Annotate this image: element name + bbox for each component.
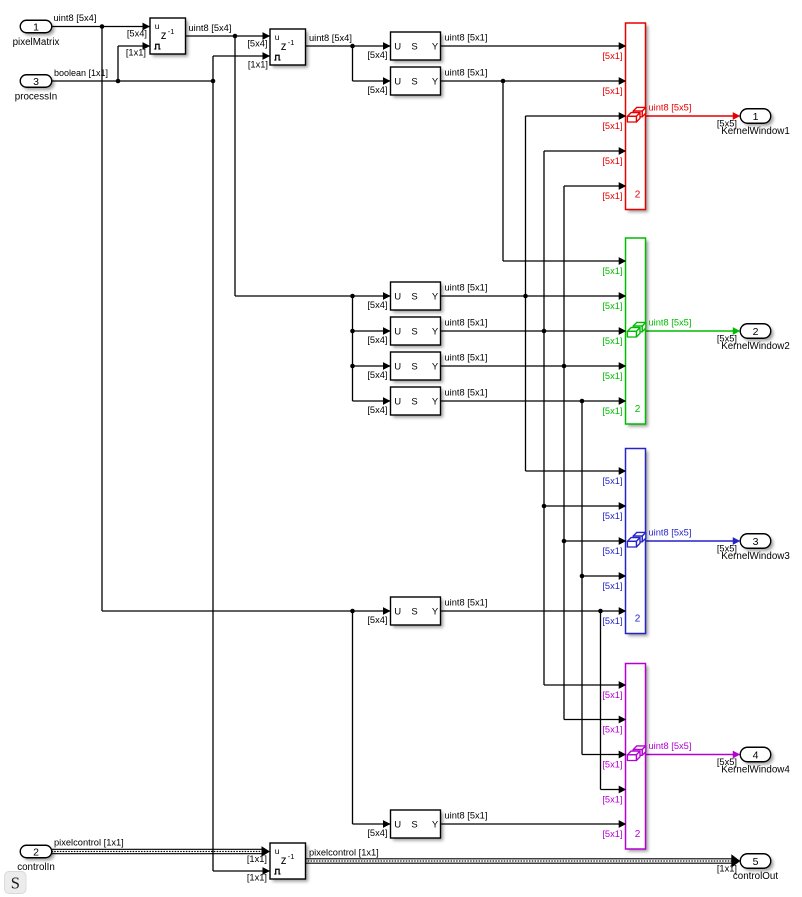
svg-text:[5x1]: [5x1] bbox=[602, 829, 622, 839]
svg-text:2: 2 bbox=[635, 404, 641, 415]
svg-text:[5x1]: [5x1] bbox=[602, 371, 622, 381]
svg-text:KernelWindow2: KernelWindow2 bbox=[721, 341, 790, 352]
svg-text:S: S bbox=[411, 606, 417, 617]
svg-text:[5x4]: [5x4] bbox=[367, 828, 387, 838]
svg-text:[5x1]: [5x1] bbox=[602, 511, 622, 521]
svg-text:uint8 [5x5]: uint8 [5x5] bbox=[649, 318, 692, 328]
svg-text:5: 5 bbox=[753, 856, 759, 868]
svg-text:2: 2 bbox=[635, 829, 641, 840]
svg-text:1: 1 bbox=[33, 21, 39, 33]
svg-text:U: U bbox=[394, 41, 401, 52]
svg-text:U: U bbox=[394, 396, 401, 407]
svg-text:uint8 [5x4]: uint8 [5x4] bbox=[189, 23, 232, 33]
svg-text:S: S bbox=[411, 76, 417, 87]
svg-text:[5x4]: [5x4] bbox=[367, 335, 387, 345]
svg-text:Y: Y bbox=[432, 819, 439, 830]
svg-text:uint8 [5x1]: uint8 [5x1] bbox=[445, 318, 488, 328]
svg-text:3: 3 bbox=[753, 536, 759, 548]
svg-text:[5x4]: [5x4] bbox=[247, 39, 267, 49]
svg-text:Y: Y bbox=[432, 361, 439, 372]
svg-text:pixelMatrix: pixelMatrix bbox=[13, 37, 60, 48]
svg-text:[5x1]: [5x1] bbox=[602, 156, 622, 166]
svg-text:uint8 [5x1]: uint8 [5x1] bbox=[445, 353, 488, 363]
svg-text:processIn: processIn bbox=[15, 92, 57, 103]
svg-text:controlOut: controlOut bbox=[733, 871, 778, 882]
svg-text:uint8 [5x4]: uint8 [5x4] bbox=[54, 13, 97, 23]
svg-text:uint8 [5x5]: uint8 [5x5] bbox=[649, 103, 692, 113]
svg-text:u: u bbox=[275, 846, 280, 856]
svg-text:U: U bbox=[394, 291, 401, 302]
svg-text:[5x1]: [5x1] bbox=[602, 690, 622, 700]
svg-text:[5x1]: [5x1] bbox=[602, 336, 622, 346]
svg-text:[5x1]: [5x1] bbox=[602, 546, 622, 556]
svg-text:Y: Y bbox=[432, 396, 439, 407]
svg-text:[5x1]: [5x1] bbox=[602, 121, 622, 131]
svg-text:2: 2 bbox=[33, 846, 39, 858]
svg-text:[1x1]: [1x1] bbox=[247, 873, 267, 883]
svg-text:[5x1]: [5x1] bbox=[602, 191, 622, 201]
svg-text:Y: Y bbox=[432, 326, 439, 337]
svg-text:[5x4]: [5x4] bbox=[127, 29, 147, 39]
svg-text:U: U bbox=[394, 606, 401, 617]
svg-text:[5x1]: [5x1] bbox=[602, 406, 622, 416]
svg-text:uint8 [5x1]: uint8 [5x1] bbox=[445, 68, 488, 78]
svg-text:[5x1]: [5x1] bbox=[602, 476, 622, 486]
svg-text:S: S bbox=[411, 326, 417, 337]
svg-text:uint8 [5x1]: uint8 [5x1] bbox=[445, 811, 488, 821]
svg-text:uint8 [5x1]: uint8 [5x1] bbox=[445, 598, 488, 608]
svg-text:3: 3 bbox=[33, 76, 39, 88]
svg-text:Y: Y bbox=[432, 606, 439, 617]
svg-text:-1: -1 bbox=[168, 27, 175, 36]
svg-text:2: 2 bbox=[635, 190, 641, 201]
svg-text:S: S bbox=[411, 819, 417, 830]
svg-text:[1x1]: [1x1] bbox=[126, 48, 146, 58]
svg-text:[5x1]: [5x1] bbox=[602, 86, 622, 96]
svg-text:[1x1]: [1x1] bbox=[247, 854, 267, 864]
svg-text:u: u bbox=[275, 32, 280, 42]
svg-text:uint8 [5x4]: uint8 [5x4] bbox=[309, 33, 352, 43]
svg-text:S: S bbox=[411, 291, 417, 302]
svg-text:[5x4]: [5x4] bbox=[367, 85, 387, 95]
svg-text:U: U bbox=[394, 361, 401, 372]
svg-text:KernelWindow4: KernelWindow4 bbox=[721, 764, 790, 775]
svg-text:[5x4]: [5x4] bbox=[367, 615, 387, 625]
svg-text:[5x1]: [5x1] bbox=[602, 266, 622, 276]
svg-text:[5x4]: [5x4] bbox=[367, 405, 387, 415]
svg-text:u: u bbox=[155, 21, 160, 31]
svg-text:U: U bbox=[394, 819, 401, 830]
svg-text:2: 2 bbox=[635, 614, 641, 625]
svg-text:S: S bbox=[411, 361, 417, 372]
svg-text:[1x1]: [1x1] bbox=[248, 60, 268, 70]
svg-text:Y: Y bbox=[432, 41, 439, 52]
svg-text:uint8 [5x1]: uint8 [5x1] bbox=[445, 388, 488, 398]
svg-text:[5x1]: [5x1] bbox=[602, 760, 622, 770]
svg-text:uint8 [5x1]: uint8 [5x1] bbox=[445, 283, 488, 293]
svg-text:uint8 [5x1]: uint8 [5x1] bbox=[445, 33, 488, 43]
svg-text:-1: -1 bbox=[288, 38, 295, 47]
svg-text:S: S bbox=[411, 41, 417, 52]
svg-text:pixelcontrol [1x1]: pixelcontrol [1x1] bbox=[54, 838, 124, 848]
svg-text:2: 2 bbox=[753, 326, 759, 338]
svg-text:S: S bbox=[411, 396, 417, 407]
svg-text:[5x1]: [5x1] bbox=[602, 725, 622, 735]
svg-text:pixelcontrol [1x1]: pixelcontrol [1x1] bbox=[309, 848, 379, 858]
svg-text:[5x4]: [5x4] bbox=[367, 300, 387, 310]
svg-text:[5x1]: [5x1] bbox=[602, 51, 622, 61]
svg-text:KernelWindow1: KernelWindow1 bbox=[721, 126, 790, 137]
svg-text:1: 1 bbox=[753, 111, 759, 123]
svg-text:U: U bbox=[394, 326, 401, 337]
svg-text:z: z bbox=[281, 855, 287, 867]
svg-text:[5x4]: [5x4] bbox=[367, 50, 387, 60]
svg-text:boolean [1x1]: boolean [1x1] bbox=[54, 68, 108, 78]
svg-text:4: 4 bbox=[753, 749, 759, 761]
svg-text:[5x4]: [5x4] bbox=[367, 370, 387, 380]
svg-text:uint8 [5x5]: uint8 [5x5] bbox=[649, 528, 692, 538]
svg-text:[5x1]: [5x1] bbox=[602, 616, 622, 626]
svg-text:z: z bbox=[161, 30, 167, 42]
svg-text:[5x1]: [5x1] bbox=[602, 581, 622, 591]
svg-text:S: S bbox=[11, 873, 20, 892]
svg-text:uint8 [5x5]: uint8 [5x5] bbox=[649, 741, 692, 751]
svg-text:z: z bbox=[281, 41, 287, 53]
svg-text:[5x1]: [5x1] bbox=[602, 301, 622, 311]
svg-text:Y: Y bbox=[432, 291, 439, 302]
svg-text:Y: Y bbox=[432, 76, 439, 87]
svg-text:U: U bbox=[394, 76, 401, 87]
svg-text:[5x1]: [5x1] bbox=[602, 795, 622, 805]
svg-text:-1: -1 bbox=[288, 852, 295, 861]
svg-text:KernelWindow3: KernelWindow3 bbox=[721, 551, 790, 562]
